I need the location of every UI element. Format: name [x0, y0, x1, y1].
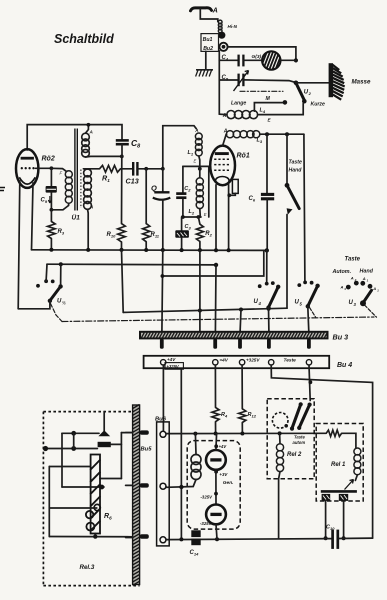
wire t3 down — [241, 365, 243, 409]
wire C8 column to rail D — [122, 250, 124, 313]
resistor R4 — [212, 407, 228, 433]
svg-text:Hi-N: Hi-N — [228, 24, 238, 29]
node C8 winding — [120, 155, 124, 159]
wire Rel3 row4 — [100, 478, 121, 480]
wire G3 to node — [281, 59, 296, 61]
node anode leg — [227, 193, 231, 197]
wire R6 bottom — [94, 534, 96, 537]
label Rel1 — [331, 462, 346, 468]
node Rel3 row2 mid — [71, 446, 76, 451]
terminal Bu4 3 — [239, 358, 260, 365]
terminal Bu4 4 — [269, 360, 274, 365]
node rail B switch — [59, 262, 63, 266]
capacitor C3 — [175, 217, 191, 249]
cam wheel Rel2 — [272, 413, 288, 429]
svg-text:Rel 2: Rel 2 — [287, 452, 302, 458]
svg-text:Taste: Taste — [294, 435, 305, 440]
wire Bu2 to right branch — [228, 47, 296, 60]
capacitor C13 — [121, 162, 163, 186]
node trimmer column — [161, 167, 165, 171]
relay box Rel3 dashed — [43, 412, 139, 586]
wire U5 to pin5 — [308, 306, 309, 332]
svg-text:F: F — [60, 171, 63, 176]
svg-text:Rö2: Rö2 — [42, 156, 55, 163]
svg-text:L4: L4 — [260, 108, 266, 115]
capacitor C9 — [41, 168, 57, 210]
node box bottom left — [181, 215, 185, 219]
node gen coil bottom — [179, 485, 183, 489]
svg-text:L2: L2 — [189, 209, 195, 216]
svg-text:M: M — [266, 96, 271, 102]
connector bar Bu3 — [140, 332, 348, 342]
resistor R6 — [86, 455, 112, 534]
capacitor C4 — [219, 55, 262, 67]
svg-text:E: E — [204, 212, 207, 217]
relay box Rel2 — [267, 399, 314, 479]
node L3 to C6 — [265, 132, 269, 136]
capacitor C10 — [326, 525, 338, 549]
wire rail B — [47, 263, 216, 266]
inductor L1 — [188, 128, 203, 169]
svg-text:C13: C13 — [126, 177, 139, 186]
wire Rel3 cap to bar — [111, 433, 133, 445]
pin Bu5 3 — [140, 534, 149, 538]
switch U1/2 — [36, 264, 66, 305]
svg-text:=4V: =4V — [220, 358, 229, 363]
wire left rail to switch — [18, 301, 50, 309]
inductor L2 — [189, 169, 207, 217]
wire rail C — [163, 250, 264, 276]
wire t2 down — [214, 365, 216, 407]
relay coil Rel2 — [276, 434, 283, 539]
wire column wireB to pin2 — [214, 265, 217, 332]
node rail B pin — [214, 263, 218, 267]
wire column R2 to bar — [199, 250, 201, 332]
svg-text:Rö1: Rö1 — [237, 153, 250, 160]
svg-text:Rel 1: Rel 1 — [331, 462, 346, 468]
pin Bu3 4 — [267, 339, 271, 349]
label Roe2 — [42, 156, 55, 163]
plug Bu1 — [218, 32, 225, 39]
wire t1b 325V rail — [180, 369, 182, 539]
wire Rel3 vert x62 — [61, 433, 63, 487]
svg-text:A: A — [350, 276, 354, 281]
node grid Roe2 — [50, 166, 54, 170]
gen coil — [166, 434, 201, 488]
contact pair Rel2 — [290, 402, 312, 431]
wire motor1 to motor2 — [214, 470, 218, 505]
label gen — [214, 470, 233, 486]
svg-text:Bu 3: Bu 3 — [333, 333, 349, 342]
svg-text:C10: C10 — [326, 525, 335, 532]
wire Roe2 cathode leg — [18, 181, 20, 309]
resistor R7 in Rel1 — [326, 430, 356, 448]
relay box Rel1 — [316, 424, 363, 502]
node C9 R3 — [50, 208, 54, 212]
transformer U1 core — [75, 129, 81, 211]
wire U4 to pin4 — [268, 308, 270, 332]
wire supply 433 — [166, 432, 326, 434]
node Rel2 coil top — [278, 431, 282, 435]
capacitor C8 — [116, 138, 141, 156]
pin Bu3 1 — [160, 339, 164, 349]
lamp G(3) — [252, 46, 288, 72]
relay coil Rel1 — [354, 448, 361, 480]
terminal Bu4 5 — [306, 360, 311, 365]
svg-text:C4: C4 — [222, 55, 229, 62]
svg-text:Gen.: Gen. — [223, 480, 234, 486]
label M — [266, 96, 271, 102]
svg-text:E: E — [194, 159, 197, 164]
node box bottom right — [197, 215, 201, 219]
wire Rel3 vert x121 — [120, 433, 122, 479]
wire Rel3 vert x74 — [73, 433, 75, 448]
terminal Bu6 1 — [160, 431, 166, 437]
ground Masse — [331, 63, 371, 99]
wire contact lead 2 — [343, 501, 345, 538]
node contact 2 — [342, 536, 346, 540]
svg-text:-325V: -325V — [201, 494, 214, 499]
node rail A R3 — [49, 248, 53, 252]
wire railA end to U4 — [266, 250, 268, 283]
terminal Bu4 1 — [161, 357, 177, 365]
scan mark left edge — [0, 188, 5, 191]
svg-text:Ü1: Ü1 — [72, 213, 81, 222]
label A of L3 — [223, 128, 228, 134]
label -325V upper — [201, 494, 214, 499]
pin Bu3 5 — [307, 339, 311, 349]
stub Bu5 2 — [126, 484, 133, 486]
antenna A — [191, 8, 218, 15]
label Teste Bu4 — [284, 358, 297, 364]
svg-text:+3V: +3V — [219, 472, 228, 477]
mech linkage dash line — [51, 304, 377, 322]
svg-text:+325V: +325V — [246, 358, 260, 363]
node gen motor bottom — [215, 537, 219, 541]
wire column to Bu3 pin1 — [161, 250, 164, 332]
capacitor C14 — [190, 530, 201, 556]
label Autom — [332, 269, 352, 275]
node Rel3 row1 — [71, 431, 76, 436]
socket Bu6 — [155, 417, 169, 546]
relay contacts Rel1 — [321, 491, 357, 501]
tube Roe2 — [16, 149, 38, 188]
node G3 row — [294, 58, 298, 62]
svg-text:R10: R10 — [107, 232, 117, 239]
svg-text:A: A — [340, 285, 344, 290]
node gen coil top — [193, 432, 197, 436]
svg-text:Masse: Masse — [352, 79, 371, 86]
coil box L1 — [163, 126, 197, 169]
wire Roe1 left leg — [215, 185, 217, 250]
wire rail D — [123, 308, 287, 312]
node L1 grid wire — [198, 167, 202, 171]
svg-text:Rel.3: Rel.3 — [80, 564, 95, 571]
svg-text:R4: R4 — [221, 412, 228, 419]
wire t4 to right rail — [271, 365, 372, 538]
svg-text:C14: C14 — [190, 550, 200, 557]
node rail A C3 — [180, 248, 184, 252]
svg-text:Bu 4: Bu 4 — [337, 362, 352, 369]
node rail C left — [161, 274, 165, 278]
svg-text:C9: C9 — [41, 198, 48, 205]
label Taste right — [345, 257, 361, 263]
capacitor C6 — [249, 134, 275, 250]
wire Rel3 row6 — [49, 507, 97, 509]
node R12 bottom — [240, 432, 244, 436]
svg-text:L1: L1 — [188, 150, 194, 157]
svg-text:C5: C5 — [222, 75, 229, 82]
node rail A Roe1 leg — [227, 248, 231, 252]
svg-text:Bu1: Bu1 — [203, 37, 213, 43]
wire Rel3 row5 — [62, 486, 104, 488]
tube Roe1 top cap — [223, 134, 227, 146]
svg-text:Lange: Lange — [231, 101, 246, 107]
svg-text:R12: R12 — [248, 412, 257, 419]
svg-text:A: A — [362, 276, 366, 281]
wire Roe2 anode leg — [32, 183, 34, 250]
node grid wire R11 — [144, 167, 148, 171]
node R4 bottom — [214, 432, 218, 436]
svg-text:+325V: +325V — [167, 364, 180, 369]
connector strip Bu5 — [133, 405, 153, 586]
transformer U1 upper secondary — [82, 125, 122, 157]
svg-text:R11: R11 — [151, 232, 160, 239]
wire M tap — [254, 103, 283, 112]
pin Bu3 2 — [213, 339, 217, 349]
label Kurze — [311, 102, 326, 108]
resistor R10 — [107, 224, 126, 250]
node rail A transformer — [86, 248, 90, 252]
svg-text:L3: L3 — [257, 138, 263, 145]
label A of L4 — [222, 113, 227, 119]
svg-text:Bu6: Bu6 — [155, 417, 167, 423]
jack Bu2 — [219, 43, 227, 51]
contact M — [283, 100, 288, 105]
node rail A end — [265, 248, 269, 252]
svg-text:-325V: -325V — [200, 521, 213, 526]
node R6 bottom — [93, 534, 97, 538]
svg-text:Bu5: Bu5 — [141, 447, 153, 453]
label Rel2 — [287, 452, 302, 458]
label U1 — [72, 213, 81, 222]
node Rel3 row2 left — [43, 446, 48, 451]
wire Roe1 right leg — [228, 185, 230, 252]
coil Hi-N — [218, 20, 237, 33]
svg-text:A: A — [212, 8, 218, 15]
svg-text:+4V: +4V — [219, 444, 228, 449]
svg-text:Hand: Hand — [289, 168, 303, 174]
switch U5 — [295, 281, 320, 309]
node rail A R2 — [198, 248, 202, 252]
svg-text:½: ½ — [62, 300, 66, 306]
stub Bu5 1 — [126, 432, 133, 434]
node rail A R11 — [144, 248, 148, 252]
svg-text:Bu2: Bu2 — [203, 46, 213, 52]
grid box L2 — [183, 166, 209, 217]
pin Bu5 1 — [140, 430, 149, 434]
node t5 crossing — [309, 380, 313, 384]
capacitor in Rel3 — [98, 412, 111, 448]
node rail D 1 — [198, 309, 202, 313]
wire chassis rail A — [32, 249, 267, 252]
svg-text:G(3): G(3) — [252, 54, 262, 60]
wire Rel3 row1 — [62, 432, 99, 434]
node rail D 3 — [267, 307, 271, 311]
svg-text:Autom.: Autom. — [332, 269, 352, 275]
svg-text:autom: autom — [293, 440, 306, 445]
node top rail winding — [87, 123, 91, 127]
node rail D 2 — [239, 308, 243, 312]
armature arrow Rel1 — [345, 480, 354, 490]
switch Taste Hand — [285, 134, 303, 308]
svg-text:A: A — [89, 130, 93, 135]
generator box — [187, 441, 240, 529]
label Hand right — [360, 269, 374, 275]
svg-text:Q: Q — [151, 184, 157, 193]
trimmer capacitor Q — [151, 169, 170, 250]
svg-text:Hand: Hand — [360, 269, 374, 275]
wire node to winding bottom — [51, 206, 68, 210]
tube Roe1 — [210, 146, 235, 186]
svg-text:R2: R2 — [205, 231, 212, 238]
wire Roe2 grid — [36, 167, 52, 169]
resistor R2 — [196, 217, 212, 250]
wire bottom rail — [166, 538, 372, 540]
svg-text:Teste: Teste — [284, 358, 297, 364]
svg-text:A: A — [194, 128, 198, 133]
wire Rel3 left rail — [48, 467, 50, 537]
node L3 to hand switch — [285, 132, 289, 136]
label Lange — [231, 101, 246, 107]
capacitor C5 variable — [219, 71, 296, 92]
terminal Bu6 2 — [160, 483, 166, 489]
svg-text:C3: C3 — [185, 224, 192, 231]
wire L3 branch down to U5 — [304, 134, 305, 282]
wire column railD to pin3 — [239, 310, 242, 332]
svg-text:Kurze: Kurze — [311, 102, 326, 108]
terminal Bu4 2 — [213, 358, 229, 365]
wire antenna to coil — [200, 9, 218, 22]
pin Bu5 2 — [140, 483, 149, 487]
inductor L4 — [219, 104, 303, 123]
wire C8 column down — [121, 156, 123, 223]
svg-text:C6: C6 — [249, 196, 256, 203]
svg-text:C2: C2 — [184, 186, 191, 193]
anode box Roe1 — [230, 179, 239, 195]
wire box to ground — [205, 51, 207, 69]
resistor R12 — [239, 409, 257, 434]
transformer U1 lower secondary — [84, 169, 94, 250]
stub Bu5 3 — [126, 537, 133, 539]
mech link C5 to U2 — [240, 90, 283, 92]
switch U3 — [340, 276, 380, 308]
socket Bu4 — [144, 356, 353, 369]
wire t1 to Bu6 — [162, 365, 164, 431]
svg-text:+4V: +4V — [167, 357, 176, 362]
svg-text:A: A — [89, 205, 93, 210]
resistor R1 — [84, 165, 121, 183]
wire Rel3 bottom row — [49, 536, 132, 538]
pin Bu3 3 — [238, 339, 242, 349]
terminal Bu6 3 — [160, 537, 166, 543]
label Rel3 — [80, 564, 95, 571]
label box Bu1 Bu2 — [201, 34, 219, 53]
capacitor C2 — [176, 186, 191, 198]
transformer U1 primary winding — [60, 171, 73, 206]
node rail A R10 — [120, 248, 124, 252]
wire left rail antenna section — [218, 51, 220, 114]
node contact 1 — [324, 536, 328, 540]
resistor R11 — [143, 169, 160, 250]
wire top rail left — [27, 125, 122, 150]
motor generator 2 — [200, 505, 226, 540]
boxed label 325V — [165, 363, 183, 370]
wire Rel3 row3 — [49, 466, 90, 468]
node rail A leg — [214, 248, 218, 252]
wire grid to winding — [51, 168, 66, 171]
svg-text:Schaltbild: Schaltbild — [54, 32, 114, 46]
node rail A trimmer — [161, 248, 165, 252]
resistor R3 — [48, 210, 65, 250]
motor generator 1 — [206, 434, 227, 470]
ground below Bu box — [196, 70, 213, 77]
node Rel3 row5 — [99, 485, 104, 490]
node 325 rail bottom — [179, 537, 183, 541]
wire U2 to Masse — [296, 82, 329, 84]
svg-text:Taste: Taste — [345, 257, 361, 263]
label Taste autom — [293, 435, 306, 446]
svg-text:R3: R3 — [58, 229, 65, 236]
title Schaltbild — [54, 32, 114, 46]
switch U2 — [294, 81, 312, 104]
svg-text:Taste: Taste — [289, 160, 302, 166]
wire contact lead 1 — [325, 501, 327, 538]
wire t5 to Rel2 contact — [309, 365, 310, 400]
label Roe1 — [237, 153, 250, 160]
inductor L3 — [226, 131, 304, 145]
switch U4 — [254, 281, 281, 310]
wire Rel3 row2 — [46, 448, 98, 450]
